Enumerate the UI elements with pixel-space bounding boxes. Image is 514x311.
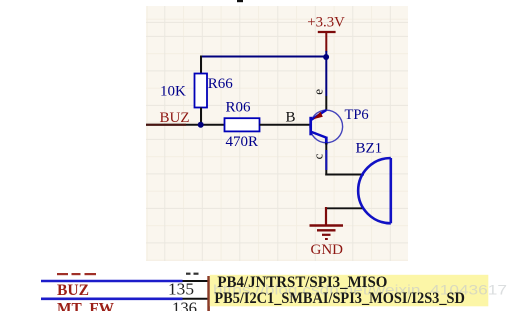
wire BUZ row (blue): [41, 280, 183, 283]
schematic canvas background: [146, 6, 408, 261]
svg-text:TP6: TP6: [345, 107, 369, 123]
pin name PB5/I2C1_SMBAI/SPI3_MOSI/I2S3_SD: [214, 289, 465, 307]
svg-text:470R: 470R: [226, 134, 259, 150]
transistor TP6 (PNP): [310, 107, 369, 145]
resistor R66: [160, 74, 233, 108]
power bar symbol +3.3V: [318, 32, 336, 52]
svg-text:B: B: [286, 110, 296, 126]
ground symbol: [310, 207, 344, 239]
wire MT_FW row (blue): [41, 297, 183, 300]
svg-text:R06: R06: [226, 100, 252, 116]
pin number 135: [168, 280, 194, 299]
MCU body highlighted yellow: [210, 275, 489, 307]
svg-text:R66: R66: [208, 76, 234, 92]
wire: BUZ net to R06: [146, 124, 225, 126]
node junction BUZ: [198, 122, 204, 128]
net label BUZ: [160, 110, 190, 126]
pin 135 stub: [183, 280, 209, 282]
svg-text:c: c: [310, 153, 325, 159]
junction at +3.3V rail: [323, 54, 329, 60]
resistor R06: [225, 100, 260, 151]
clipped title text fragment at top: [237, 0, 243, 2]
clipped row pin 134: red net label fragment: [57, 273, 96, 275]
wire: vertical from +3.3V junction down to transistor: [325, 51, 327, 111]
svg-text:PB5/I2C1_SMBAI/SPI3_MOSI/I2S3_: PB5/I2C1_SMBAI/SPI3_MOSI/I2S3_SD: [214, 289, 465, 307]
pin label e (rotated): [311, 89, 326, 95]
svg-text:BUZ: BUZ: [57, 282, 89, 299]
svg-text:BUZ: BUZ: [160, 110, 190, 126]
svg-text:MT_FW: MT_FW: [57, 301, 114, 311]
pin number 136 (clipped): [172, 299, 197, 311]
watermark: [213, 282, 507, 298]
pin 136 stub: [183, 298, 209, 300]
wire: rail down to R66: [200, 56, 202, 75]
pin name PB4/JNTRST/SPI3_MISO: [217, 273, 387, 291]
svg-text:136: 136: [172, 299, 197, 311]
wire: top rail from R66 to +3.3V: [201, 56, 326, 58]
wire: transistor bottom to buzzer top pin: [325, 143, 364, 176]
clipped row pin 134: number fragment: [186, 273, 199, 275]
svg-text:+3.3V: +3.3V: [307, 14, 345, 30]
wire: buzzer bottom pin to GND: [325, 207, 364, 209]
power +3.3V label: [307, 14, 345, 30]
svg-text:135: 135: [168, 280, 194, 299]
svg-text:BZ1: BZ1: [356, 141, 383, 157]
svg-text:GND: GND: [311, 242, 344, 258]
svg-text:e: e: [311, 89, 326, 95]
net label MT_FW (table, clipped): [57, 301, 114, 311]
node B label: [286, 110, 296, 126]
wire: R06 to transistor base: [260, 124, 311, 126]
svg-text:10K: 10K: [160, 84, 186, 100]
MCU body left border: [207, 276, 210, 311]
wire: R66 bottom to BUZ node: [200, 108, 202, 126]
pin label c (rotated): [310, 153, 325, 159]
GND label: [311, 242, 344, 258]
net label BUZ (table): [57, 282, 89, 299]
buzzer BZ1: [356, 141, 391, 224]
